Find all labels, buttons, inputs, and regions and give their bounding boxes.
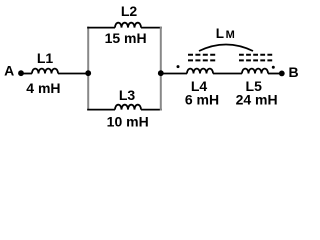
svg-text:M: M [226, 29, 235, 41]
node junction left [85, 70, 91, 76]
svg-text:10 mH: 10 mH [107, 113, 149, 129]
polarity dot L4 [177, 65, 180, 68]
inductor L3 [115, 105, 141, 110]
svg-text:L1: L1 [37, 50, 54, 66]
svg-text:L2: L2 [121, 3, 138, 19]
svg-text:L3: L3 [119, 87, 136, 103]
svg-text:6 mH: 6 mH [185, 91, 219, 107]
inductor L1 [32, 69, 58, 74]
inductor L2 [115, 23, 141, 28]
core dashes L4 [188, 54, 215, 56]
polarity dot L5 [272, 66, 275, 69]
inductor L4 [187, 69, 213, 74]
wire [268, 73, 282, 75]
wire [213, 73, 242, 75]
mutual inductance arc LM [199, 45, 253, 52]
node B [279, 71, 285, 77]
wire top left [87, 27, 115, 29]
node junction right [158, 70, 164, 76]
core dashes L5 [239, 54, 272, 56]
svg-text:L: L [216, 26, 224, 41]
wire bottom left [87, 109, 115, 111]
svg-text:15 mH: 15 mH [105, 30, 147, 46]
inductor L5 [242, 69, 268, 74]
wire bottom right [141, 109, 162, 111]
svg-text:4 mH: 4 mH [26, 80, 60, 96]
svg-text:B: B [289, 64, 299, 80]
svg-text:24 mH: 24 mH [236, 91, 278, 107]
wire right vertical [160, 27, 162, 111]
wire [58, 73, 88, 75]
wire [21, 73, 32, 75]
wire top right [141, 27, 162, 29]
svg-text:A: A [4, 62, 14, 78]
wire left vertical [87, 27, 89, 111]
wire [161, 73, 187, 75]
